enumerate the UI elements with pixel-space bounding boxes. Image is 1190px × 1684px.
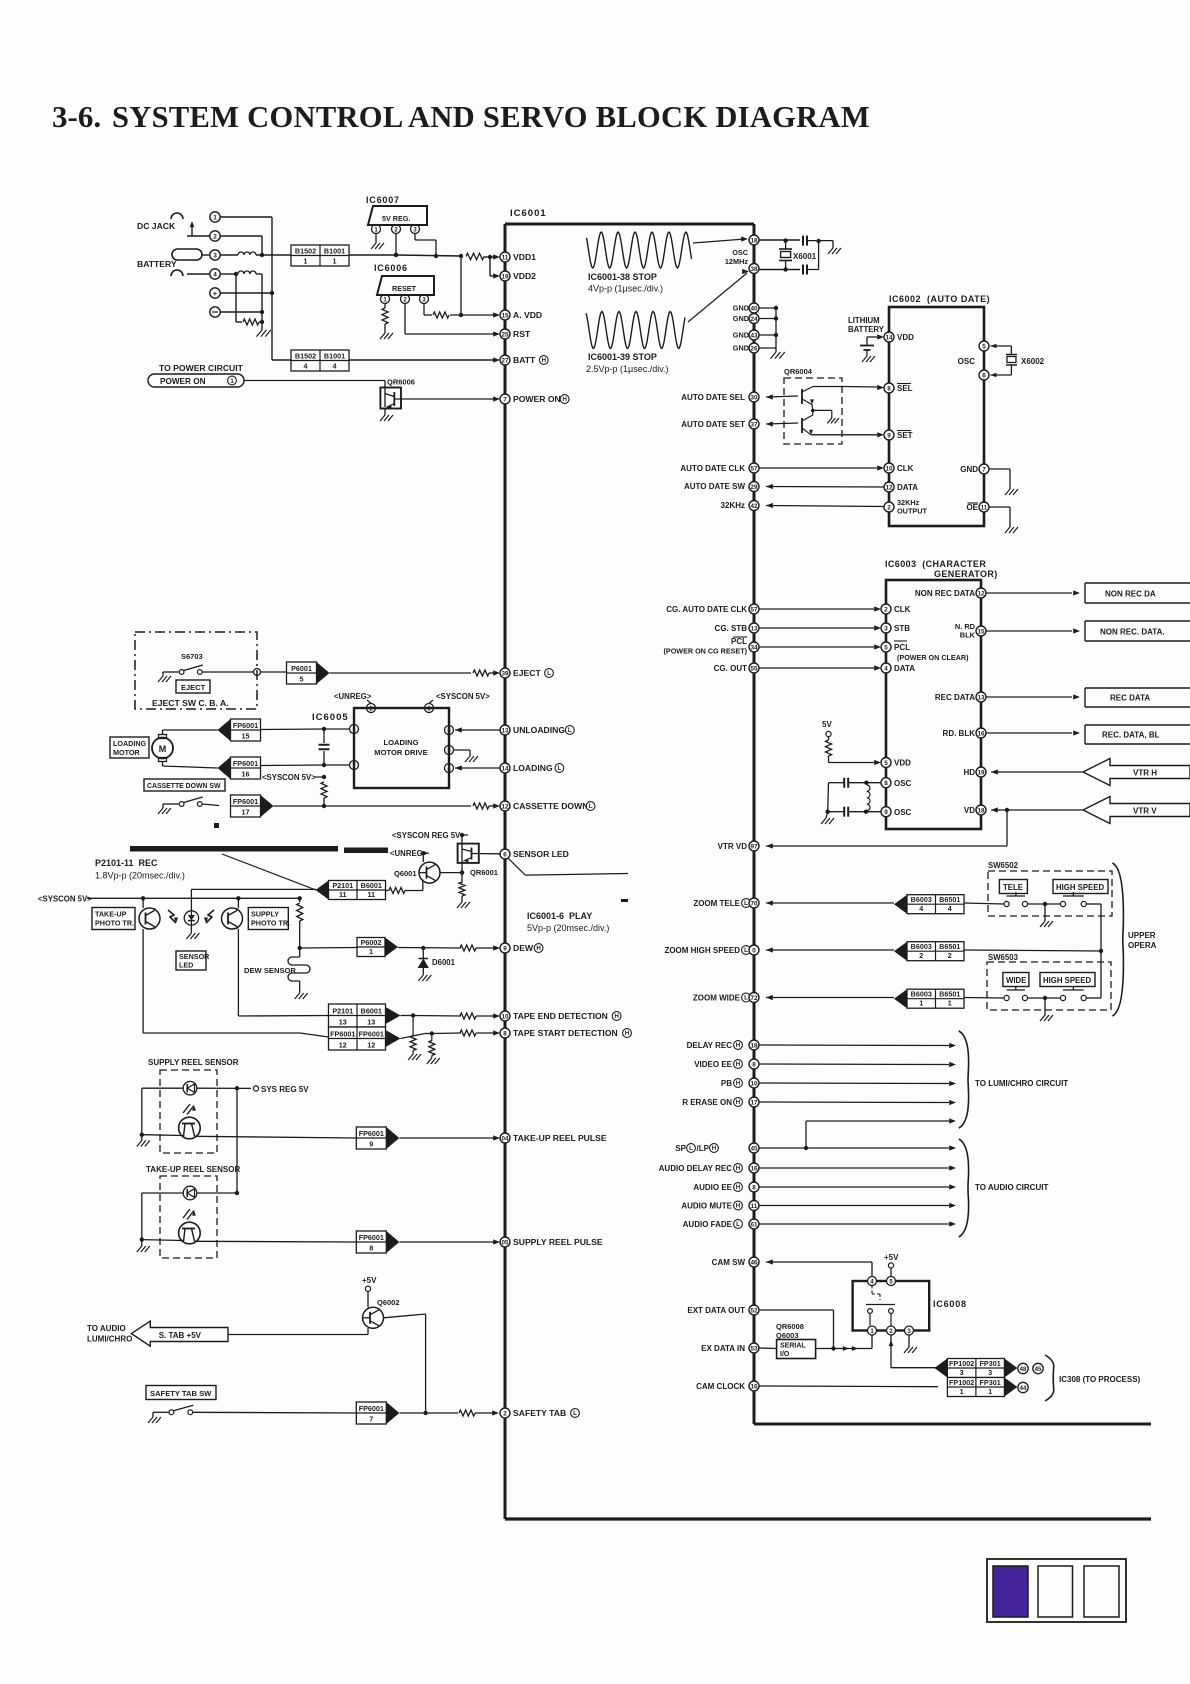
svg-text:13: 13 <box>977 694 985 701</box>
wire q6002 emitter to arrow <box>228 1328 368 1335</box>
svg-text:4Vp-p (1μsec./div.): 4Vp-p (1μsec./div.) <box>588 284 663 294</box>
svg-text:13: 13 <box>367 1018 375 1027</box>
svg-text:3: 3 <box>960 1368 964 1377</box>
switch relay ic6008 <box>866 1286 895 1326</box>
svg-text:VTR VD: VTR VD <box>718 842 748 851</box>
svg-text:AUDIO DELAY REC: AUDIO DELAY REC <box>659 1164 733 1173</box>
pin 9 DEW (IC6001 left) <box>500 943 543 953</box>
svg-text:57: 57 <box>750 465 758 472</box>
svg-text:FP1002: FP1002 <box>949 1378 974 1387</box>
svg-text:TAKE-UP: TAKE-UP <box>95 910 127 919</box>
pin 8 OSC IC6003 <box>881 778 912 788</box>
svg-text:B6501: B6501 <box>939 942 960 951</box>
ground QR6001 emitter <box>457 902 470 908</box>
svg-text:UNLOADING: UNLOADING <box>513 725 565 735</box>
svg-text:72: 72 <box>750 995 758 1002</box>
pin 39 EJECT (IC6001 left) <box>500 668 553 678</box>
svg-text:5: 5 <box>300 675 304 684</box>
svg-text:IC6001-6 PLAY: IC6001-6 PLAY <box>527 911 592 921</box>
svg-text:05: 05 <box>501 1239 509 1246</box>
svg-text:PHOTO TR.: PHOTO TR. <box>95 919 134 928</box>
resistor battery shunt <box>243 319 259 325</box>
node junction ic6007 pin2 <box>394 253 398 257</box>
resistor dew pullup <box>297 896 303 950</box>
wire pin4 to LOADING <box>455 765 500 770</box>
svg-text:70: 70 <box>750 900 758 907</box>
svg-text:P2101: P2101 <box>332 881 353 890</box>
svg-text:WIDE: WIDE <box>1006 976 1026 985</box>
wire node to table4 <box>272 359 291 361</box>
node SYSCON5V flag ic6005 <box>429 692 490 704</box>
svg-text:7: 7 <box>503 396 507 403</box>
node SW6502 dashed box <box>988 861 1112 916</box>
svg-text:QR6004: QR6004 <box>784 367 813 376</box>
svg-text:TAPE START DETECTION: TAPE START DETECTION <box>513 1028 618 1038</box>
svg-text:5: 5 <box>982 343 986 350</box>
pin 5 IC6005 <box>445 726 454 735</box>
svg-text:13: 13 <box>750 625 758 632</box>
inductor cg osc coil <box>864 785 870 814</box>
svg-text:12MHz: 12MHz <box>725 257 748 266</box>
pin 70 ZOOM TELE <box>693 895 964 914</box>
wire supply pulse line <box>195 1240 357 1243</box>
ground QR6004 <box>813 410 839 423</box>
wire bus-to-right-edge <box>754 1423 1151 1426</box>
svg-text:AUTO DATE SEL: AUTO DATE SEL <box>681 393 745 402</box>
svg-text:H: H <box>736 1080 741 1087</box>
wire QR6006 to POWER ON pin <box>394 396 500 401</box>
svg-text:OSC: OSC <box>894 808 912 817</box>
svg-text:HD: HD <box>963 768 975 777</box>
svg-text:17: 17 <box>242 808 250 817</box>
transistor pair QR6004 dashed box <box>784 367 842 444</box>
svg-text:16: 16 <box>750 1383 758 1390</box>
node legend outer box <box>987 1559 1126 1622</box>
svg-text:L: L <box>736 1221 740 1228</box>
node DC JACK label <box>137 221 176 231</box>
ground IC6008 pin3 <box>904 1335 917 1353</box>
svg-text:B1001: B1001 <box>324 247 345 256</box>
op-amp U-IC6008 outline <box>853 1281 967 1331</box>
pin 16 RD.BLK <box>943 728 1080 738</box>
svg-text:52: 52 <box>750 1307 758 1314</box>
svg-text:32KHz: 32KHz <box>721 501 745 510</box>
svg-text:GENERATOR): GENERATOR) <box>934 569 998 579</box>
connector battery pill <box>172 249 202 260</box>
svg-text:CG. STB: CG. STB <box>715 624 748 633</box>
svg-text:3-6.: 3-6. <box>52 99 101 134</box>
pin 5 IC6008 <box>887 1277 896 1286</box>
pin 3 IC6008 <box>905 1326 914 1335</box>
wire minus to node <box>220 310 264 314</box>
transistor supply reel photo <box>179 1117 201 1139</box>
resistor cassette in <box>473 803 500 809</box>
svg-text:B6001: B6001 <box>361 881 382 890</box>
pin 15 N.RD BLK <box>955 622 1080 640</box>
svg-text:7: 7 <box>369 1415 373 1424</box>
pin 19 HD <box>963 767 1083 777</box>
waveform IC6001-39 <box>586 269 749 349</box>
wire pin1 left <box>261 727 350 731</box>
svg-text:CAM CLOCK: CAM CLOCK <box>696 1382 745 1391</box>
svg-text:ZOOM HIGH SPEED: ZOOM HIGH SPEED <box>664 946 740 955</box>
wire takeup reel emitter <box>137 1193 184 1252</box>
capacitor C-cg1 <box>829 778 882 788</box>
node CASSETTE DOWN SW label <box>144 779 225 791</box>
pin 2 IC6006 <box>401 295 410 304</box>
svg-text:11: 11 <box>751 1203 758 1210</box>
resistor dew sensor meander <box>288 948 310 999</box>
connector FP6001-8 flag <box>356 1231 399 1253</box>
wire syscon5v rail <box>87 896 300 900</box>
svg-text:FP6001: FP6001 <box>359 1030 384 1039</box>
pin 71 ZOOM HIGH SPEED <box>664 942 964 961</box>
svg-text:LOADING: LOADING <box>113 739 147 748</box>
wire cap2 up <box>808 241 819 270</box>
svg-text:SUPPLY REEL PULSE: SUPPLY REEL PULSE <box>513 1237 603 1247</box>
svg-text:CG. AUTO DATE CLK: CG. AUTO DATE CLK <box>666 605 747 614</box>
svg-text:2: 2 <box>919 951 923 960</box>
pin 8 AUDIO EE <box>693 1182 956 1192</box>
pin 8 TAPE START DETECTION (IC6001 left) <box>500 1028 631 1038</box>
connector FP6001-9 flag <box>356 1127 399 1149</box>
waveform IC6001-39 caption <box>586 352 669 374</box>
transistor QR6004-a <box>802 387 844 413</box>
pin 9 SET IC6002 <box>884 430 913 440</box>
svg-text:B1502: B1502 <box>295 352 316 361</box>
wire IC6001 bottom edge <box>505 1517 1151 1520</box>
svg-text:AUTO DATE SET: AUTO DATE SET <box>681 420 745 429</box>
node box REC DATA BLK <box>1085 725 1190 744</box>
ground battery input <box>257 322 271 337</box>
node legend white square 1 <box>1038 1566 1073 1617</box>
node +5V ic6008 <box>884 1253 899 1276</box>
ground IC6006 pin1 <box>380 324 393 339</box>
svg-text:5: 5 <box>884 760 888 767</box>
light arrows takeup reel <box>183 1209 196 1220</box>
svg-text:14: 14 <box>885 334 893 341</box>
svg-text:L: L <box>744 995 748 1002</box>
wire q6002 collector to safety <box>384 1314 428 1415</box>
svg-text:5V REG.: 5V REG. <box>382 214 410 223</box>
pin 15 A. VDD (IC6001 left) <box>500 310 542 320</box>
op-amp U-IC6007 outline <box>368 206 427 225</box>
pin 8 SEL IC6002 <box>884 383 913 393</box>
svg-text:2: 2 <box>948 951 952 960</box>
pin 97 VTR VD <box>718 810 1007 851</box>
svg-text:CASSETTE DOWN: CASSETTE DOWN <box>513 801 588 811</box>
svg-text:3: 3 <box>884 625 888 632</box>
svg-text:NON REC DATA: NON REC DATA <box>915 589 975 598</box>
svg-text:TAKE-UP REEL PULSE: TAKE-UP REEL PULSE <box>513 1133 607 1143</box>
node supply reel dashed box <box>160 1070 217 1153</box>
wire res branch <box>236 274 242 322</box>
svg-text:44: 44 <box>1020 1386 1027 1392</box>
svg-text:CLK: CLK <box>894 605 911 614</box>
svg-text:40: 40 <box>750 305 758 312</box>
svg-text:RST: RST <box>513 329 531 339</box>
resistor vdd1 <box>466 253 484 259</box>
svg-text:B6501: B6501 <box>939 895 960 904</box>
wire cap1 to gnd node <box>808 239 833 243</box>
svg-text:46: 46 <box>750 1259 758 1266</box>
wire pin7 left <box>261 763 350 767</box>
node EJECT SW C.B.A dashed box <box>135 632 257 709</box>
node stray mark <box>214 823 219 828</box>
ground osc <box>828 241 841 254</box>
node terminal 1 <box>210 212 220 222</box>
svg-text:1: 1 <box>960 1387 964 1396</box>
svg-text:LOADING: LOADING <box>383 738 418 747</box>
wire table1 out <box>349 253 398 257</box>
svg-text:OSC: OSC <box>732 248 749 257</box>
svg-text:8: 8 <box>752 1061 756 1068</box>
node HIGH SPEED label sw6503 <box>1040 973 1095 987</box>
switch S6703 <box>158 652 210 693</box>
resistor QR6001 emitter <box>459 882 465 902</box>
svg-text:15: 15 <box>242 732 250 741</box>
node SW6503 dashed box <box>987 953 1111 1010</box>
pin 52 EXT DATA OUT <box>687 1305 833 1349</box>
svg-text:GND: GND <box>960 465 978 474</box>
motor LOADING MOTOR <box>110 730 218 768</box>
op-amp U-IC6002 outline <box>889 307 984 526</box>
node box NON REC. DATA <box>1085 621 1190 641</box>
wire terminal4 to coil <box>187 272 238 276</box>
svg-text:EJECT SW C. B. A.: EJECT SW C. B. A. <box>152 698 229 708</box>
svg-text:AUTO DATE SW: AUTO DATE SW <box>684 482 745 491</box>
svg-text:FP301: FP301 <box>980 1378 1001 1387</box>
svg-text:B6003: B6003 <box>911 990 932 999</box>
wire IC6006 pin2 to RST <box>405 304 500 337</box>
svg-text:PCL: PCL <box>731 637 747 646</box>
op-amp U-IC6003 outline <box>886 580 981 829</box>
svg-text:B6501: B6501 <box>939 990 960 999</box>
pin 11 AUDIO MUTE <box>681 1201 956 1211</box>
pin 6 IC6002 <box>979 370 989 380</box>
node UNREG q6001 <box>390 849 429 858</box>
svg-text:3: 3 <box>213 253 217 260</box>
wire annotation diagonal <box>222 854 316 890</box>
pin 9 OSC IC6003 <box>881 807 912 817</box>
pin 24 GND (IC6001) <box>733 314 778 324</box>
svg-text:L: L <box>558 765 562 772</box>
capacitor C-cg2 <box>828 807 881 817</box>
svg-text:LOADING: LOADING <box>513 763 553 773</box>
pin 16 CAM CLOCK <box>696 1381 938 1391</box>
svg-text:H: H <box>542 357 547 364</box>
svg-text:61: 61 <box>750 1221 758 1228</box>
node TAKE-UP REEL SENSOR label <box>146 1165 240 1174</box>
svg-text:11: 11 <box>502 254 509 261</box>
svg-text:REC DATA: REC DATA <box>1110 694 1150 703</box>
svg-text:QR6006: QR6006 <box>387 378 415 387</box>
wire FP7 to pin <box>400 1412 459 1414</box>
connector table B1502/B1001 pin1 <box>291 245 349 266</box>
wire gnd rail <box>775 308 777 352</box>
svg-text:L: L <box>568 727 572 734</box>
svg-text:8: 8 <box>887 385 891 392</box>
svg-text:IC6003 (CHARACTER: IC6003 (CHARACTER <box>885 559 986 569</box>
pin 2 IC6007 <box>392 225 401 234</box>
wire terminal3 to coil <box>202 254 238 256</box>
connector FP6001-16 flag <box>218 757 261 779</box>
pin 30 AUTO DATE SEL <box>681 392 798 402</box>
svg-text:7: 7 <box>982 466 986 473</box>
svg-text:12: 12 <box>339 1041 347 1050</box>
svg-text:CG. OUT: CG. OUT <box>714 664 747 673</box>
svg-text:TO LUMI/CHRO CIRCUIT: TO LUMI/CHRO CIRCUIT <box>975 1079 1068 1088</box>
op-amp U-IC6001 block outline <box>505 208 754 1519</box>
svg-text:D6001: D6001 <box>432 958 456 967</box>
diode supply reel LED <box>183 1081 197 1095</box>
node TAKE-UP PHOTO TR label <box>92 908 135 930</box>
svg-text:IC6008: IC6008 <box>933 1299 967 1309</box>
pin 12 DATA IC6002 <box>884 482 918 492</box>
svg-text:37: 37 <box>750 421 758 428</box>
pin 19 VDD2 (IC6001 left) <box>500 271 536 281</box>
ground sw6503 <box>1040 998 1053 1021</box>
svg-text:CAM SW: CAM SW <box>712 1258 746 1267</box>
wire IC6007 pin3 down <box>415 234 438 259</box>
connector FP1002/FP301 flag 3 <box>934 1359 1017 1378</box>
light arrows supply reel <box>183 1104 196 1115</box>
svg-text:5: 5 <box>884 644 888 651</box>
svg-text:SERIAL: SERIAL <box>780 1343 806 1350</box>
svg-text:REC. DATA, BL: REC. DATA, BL <box>1102 731 1160 740</box>
transistor QR6004-b <box>802 410 813 434</box>
svg-text:H: H <box>736 1099 741 1106</box>
wire pin5 to UNLOADING <box>455 727 500 732</box>
resistor IC6006 pin1 <box>382 308 388 324</box>
svg-text:VIDEO EE: VIDEO EE <box>694 1060 732 1069</box>
svg-text:B6003: B6003 <box>911 895 932 904</box>
svg-text:FP6001: FP6001 <box>330 1030 355 1039</box>
svg-text:H: H <box>712 1145 717 1152</box>
svg-text:IC6006: IC6006 <box>374 263 408 273</box>
svg-text:11: 11 <box>981 504 988 511</box>
svg-text:45: 45 <box>750 1145 758 1152</box>
svg-text:9: 9 <box>887 432 891 439</box>
svg-text:4: 4 <box>884 665 888 672</box>
svg-text:4: 4 <box>919 904 923 913</box>
ground cg osc <box>821 812 834 824</box>
svg-text:VDD2: VDD2 <box>513 271 536 281</box>
svg-text:24: 24 <box>750 316 758 323</box>
svg-text:OSC: OSC <box>894 779 912 788</box>
svg-text:H: H <box>736 1203 741 1210</box>
svg-text:EJECT: EJECT <box>181 683 206 692</box>
node SYSCON 5V label <box>38 895 92 904</box>
wire annotation to waveform <box>508 858 628 875</box>
pin 27 BATT (IC6001 left) <box>500 355 548 365</box>
svg-text:SW6502: SW6502 <box>988 861 1019 870</box>
svg-text:15: 15 <box>977 628 985 635</box>
svg-text:48: 48 <box>1020 1367 1027 1373</box>
pin 05 SUPPLY REEL PULSE (IC6001 left) <box>500 1237 603 1247</box>
connector P6001 flag <box>287 662 330 684</box>
svg-text:IC6005: IC6005 <box>312 712 349 723</box>
pin 7 POWER ON (IC6001 left) <box>500 394 569 404</box>
wire plus to node <box>220 291 274 295</box>
svg-text:P2101: P2101 <box>332 1007 353 1016</box>
waveform IC6001-38 <box>587 232 749 268</box>
svg-text:SP: SP <box>675 1144 686 1153</box>
svg-text:OSC: OSC <box>958 357 976 366</box>
waveform caption IC6001-6 PLAY <box>527 911 609 933</box>
svg-text:42: 42 <box>750 503 758 510</box>
svg-text:(POWER ON CG RESET): (POWER ON CG RESET) <box>664 647 748 656</box>
pin 10 PB <box>721 1078 956 1088</box>
pin 57 AUTO DATE CLK <box>680 463 884 473</box>
connector jack arc 2 <box>171 270 183 276</box>
pin 3 IC6007 <box>411 225 420 234</box>
svg-text:45: 45 <box>1035 1367 1042 1373</box>
wire res to vdd1 pin <box>484 254 500 259</box>
pin 18 DELAY REC <box>687 1040 956 1050</box>
wire supply reel emitter <box>137 1088 184 1146</box>
svg-text:H: H <box>562 396 567 403</box>
pin 2 CLK IC6003 <box>881 604 911 614</box>
svg-text:FP6001: FP6001 <box>233 797 258 806</box>
node SYSCON REG 5V <box>392 831 468 840</box>
pin 14 VDD IC6002 <box>884 332 914 342</box>
node UNREG flag ic6005 <box>334 692 372 704</box>
resistor 5V pullup <box>826 737 832 763</box>
node box REC DATA <box>1085 688 1190 707</box>
wire vdd2 branch <box>490 257 500 279</box>
svg-text:SAFETY TAB: SAFETY TAB <box>513 1408 566 1418</box>
node terminal plus <box>210 288 220 298</box>
svg-text:FP6001: FP6001 <box>233 721 258 730</box>
node SUPPLY REEL SENSOR label <box>148 1058 239 1067</box>
svg-text:AUDIO MUTE: AUDIO MUTE <box>681 1202 732 1211</box>
transistor supply photo <box>222 898 243 1016</box>
title text <box>52 99 870 134</box>
svg-text:GND: GND <box>733 331 749 340</box>
svg-text:VTR H: VTR H <box>1133 769 1157 778</box>
pin 8 VIDEO EE <box>694 1059 956 1069</box>
node pins 48 45 <box>1018 1363 1043 1373</box>
svg-text:OUTPUT: OUTPUT <box>897 507 928 516</box>
waveform bar P2101-11 <box>130 846 388 853</box>
pin 1 IC6005 <box>350 725 359 734</box>
inductor L2 (battery) <box>238 271 256 274</box>
svg-text:SENSOR LED: SENSOR LED <box>513 849 569 859</box>
svg-text:8: 8 <box>503 1030 507 1037</box>
wire tape end to pin <box>401 1013 462 1017</box>
svg-text:4: 4 <box>333 362 337 371</box>
svg-text:POWER ON: POWER ON <box>160 377 206 386</box>
svg-text:DATA: DATA <box>894 664 915 673</box>
svg-text:8: 8 <box>884 780 888 787</box>
wire terminal2 to junction <box>187 236 262 255</box>
svg-text:04: 04 <box>501 1135 509 1142</box>
svg-text:+: + <box>213 289 218 298</box>
wire tape start line <box>143 1033 328 1037</box>
svg-text:OE: OE <box>966 503 978 512</box>
pin 46 CAM SW <box>712 1257 872 1276</box>
svg-text:30: 30 <box>750 394 758 401</box>
svg-text:12: 12 <box>885 484 893 491</box>
svg-text:<SYSCON 5V>: <SYSCON 5V> <box>38 895 92 904</box>
svg-text:BATTERY: BATTERY <box>848 325 885 334</box>
node pin 44 <box>1018 1382 1028 1392</box>
svg-text:L: L <box>547 670 551 677</box>
wire IC6006 pin1 down <box>384 304 386 309</box>
pin 1 IC6008 <box>868 1326 877 1335</box>
pin 11 OE IC6002 <box>966 502 1018 533</box>
